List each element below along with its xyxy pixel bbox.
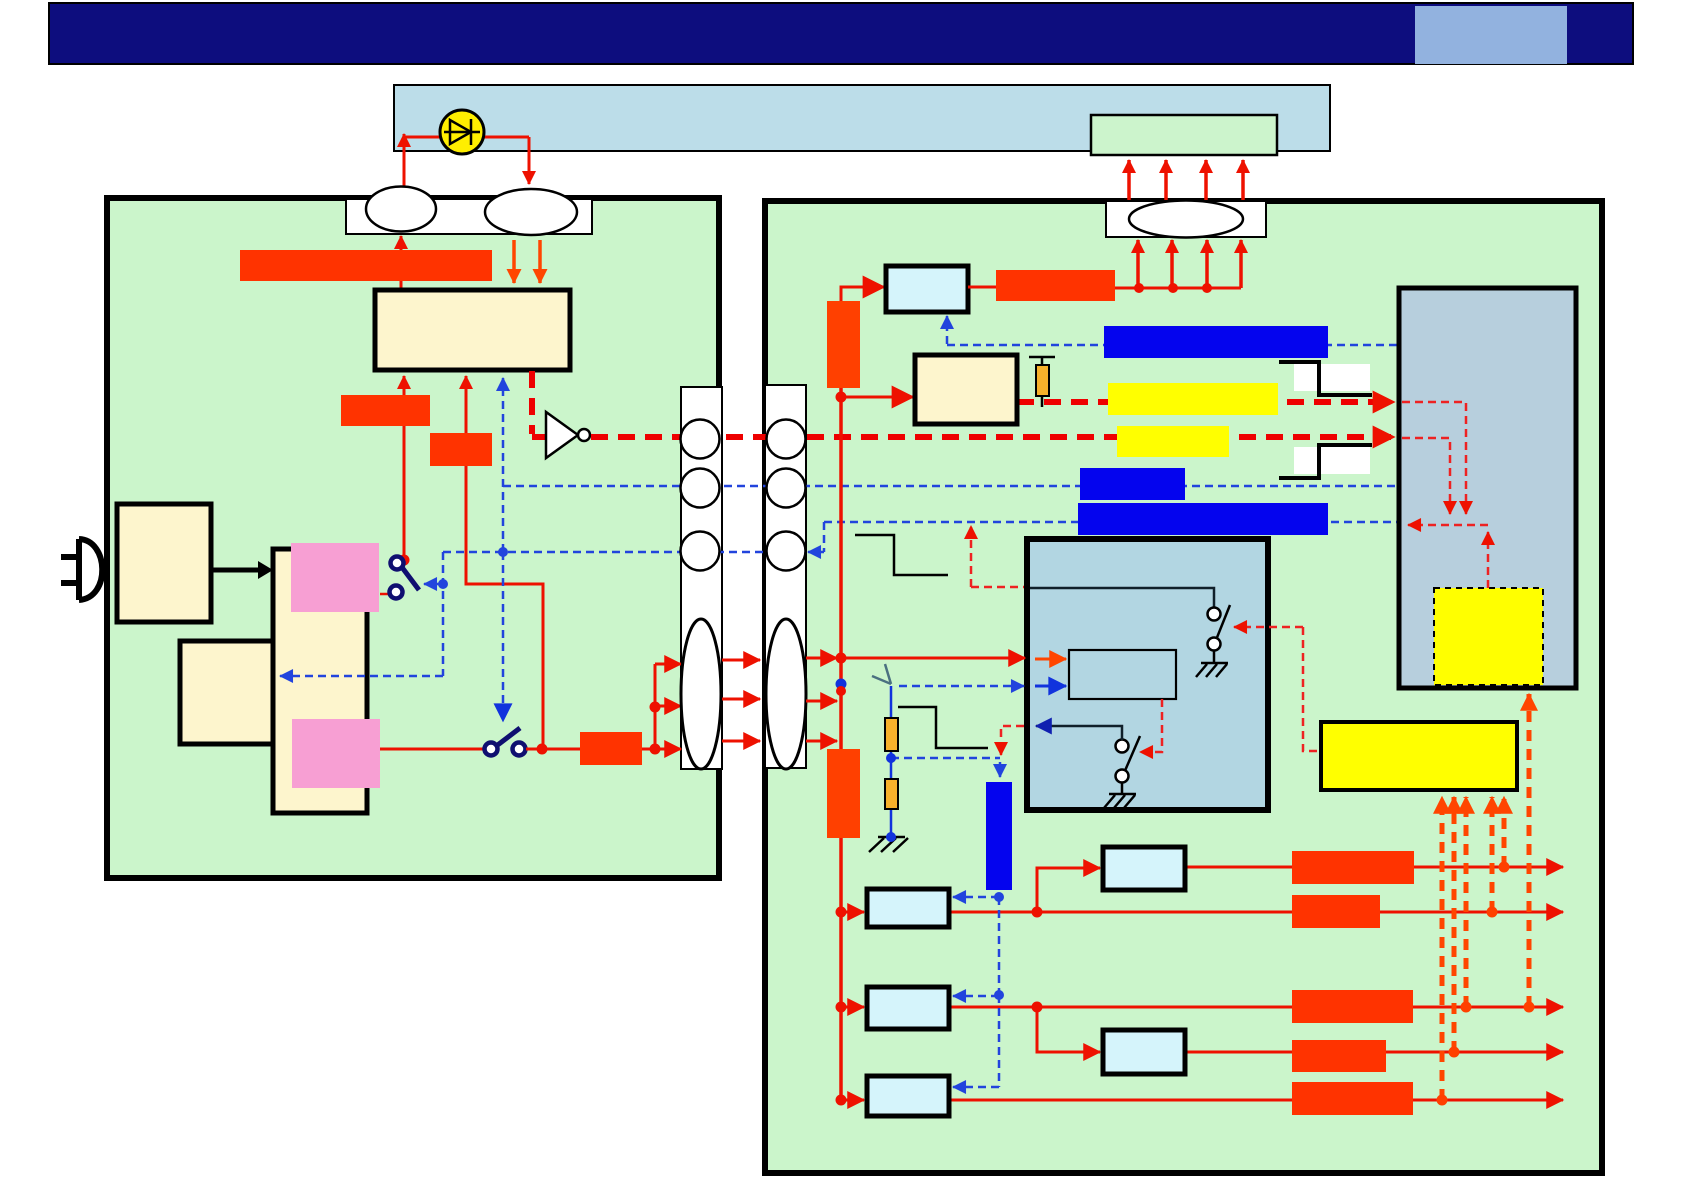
rectifier bar (tall orange top) xyxy=(827,301,860,388)
red box R2 xyxy=(430,433,492,466)
sense chain node 2 xyxy=(994,990,1004,1000)
J1 pin L3 xyxy=(681,532,720,571)
output red box row1b xyxy=(1292,851,1414,884)
wire loop top run xyxy=(404,136,529,139)
node rail aux xyxy=(836,686,846,696)
row wire 1b xyxy=(1185,866,1563,869)
wire loop right drop xyxy=(528,137,531,184)
node lamp wire 1 xyxy=(1134,283,1144,293)
right notch top (lamp connector cutout) xyxy=(1106,201,1266,237)
title bar xyxy=(49,3,1633,64)
node f3 xyxy=(1461,1002,1472,1013)
backlight arrow 3 xyxy=(1204,160,1208,200)
main rail x841 xyxy=(839,388,843,1100)
blue status row y345 xyxy=(947,344,1397,347)
control drop to S2 xyxy=(502,552,505,721)
riser R1 to S1 xyxy=(403,426,406,556)
rail top hook to AC module xyxy=(841,287,884,302)
yellow label bar 2 xyxy=(1117,426,1229,457)
step glyph C labels xyxy=(1294,364,1318,391)
blue row y552 left segment xyxy=(443,551,768,554)
lamp feed arrow 3 xyxy=(1205,240,1209,288)
wire driver to lamp arrows xyxy=(1115,287,1241,290)
battery cell 2 xyxy=(292,719,380,788)
sense chain arrow 1 xyxy=(953,896,999,899)
backlight arrow 1 xyxy=(1127,160,1131,200)
ground G1 xyxy=(869,832,908,852)
switch S4 xyxy=(1116,736,1141,794)
row wire 2 xyxy=(949,1006,1563,1009)
node on control line xyxy=(498,547,508,557)
AC feed arrow xyxy=(211,568,258,573)
fuse F1 xyxy=(1029,357,1055,407)
right notch side (J2 cutout right) xyxy=(765,385,806,768)
feed wire via jog to S2 node xyxy=(466,466,543,747)
J1 socket B (ellipse) xyxy=(485,189,577,235)
node rail row3 xyxy=(836,1095,847,1106)
battery cell 1 xyxy=(291,543,379,612)
ctrl box B (cyan) xyxy=(1103,847,1185,890)
lamp inverter unit xyxy=(915,355,1017,424)
wire battery2 to S2 xyxy=(380,748,485,751)
ctrl box A (cyan) xyxy=(867,889,949,927)
blue arrow into sense module xyxy=(999,762,1002,777)
step glyph D labels xyxy=(1294,447,1318,474)
node lamp wire 3 xyxy=(1202,283,1212,293)
J1-B down arrow 2 xyxy=(538,240,542,283)
riser to J1-A xyxy=(400,236,403,292)
S3 ctrl dash elbow xyxy=(1303,627,1321,751)
power wire into control box xyxy=(840,657,1025,660)
wire battery1 to S1 xyxy=(380,593,390,596)
blue status row y522 xyxy=(824,521,1397,524)
step waveform glyph B xyxy=(898,707,988,748)
backlight arrow 4 xyxy=(1241,160,1245,200)
inner dash path B xyxy=(1402,438,1450,514)
J1 pin L1 xyxy=(681,420,720,459)
output red box row2b xyxy=(1292,1040,1386,1072)
node divider tap xyxy=(886,753,896,763)
sense module (blue bar) xyxy=(986,782,1012,890)
wire loop left riser xyxy=(403,134,406,186)
status arrow down to sense line xyxy=(1000,742,1003,755)
power bus bar xyxy=(240,250,492,281)
voltage divider wire xyxy=(890,686,893,837)
output red box row1 xyxy=(1292,895,1380,928)
lamp driver assembly box (steel) xyxy=(1399,288,1576,688)
rail feed arrow row1 xyxy=(841,911,864,914)
feedback riser f2 xyxy=(1452,797,1457,1052)
AC plug P1 xyxy=(61,539,102,600)
ctrl box E (cyan) xyxy=(867,1076,949,1116)
output red box row3 xyxy=(1292,1082,1413,1115)
ground G3 xyxy=(1196,663,1228,677)
control riser x443 xyxy=(442,552,445,676)
crossing tick marks xyxy=(872,664,891,684)
branch up to ctrl box B xyxy=(1037,868,1100,912)
node rail J2 row1 xyxy=(836,653,847,664)
node f4 xyxy=(1487,907,1498,918)
row wire 1 xyxy=(949,911,1563,914)
node R3 branch xyxy=(650,744,661,755)
red box R3 xyxy=(580,732,642,765)
wire R3 to branch xyxy=(642,748,655,751)
node f6 xyxy=(1524,1002,1535,1013)
pwm block (yellow dashed) xyxy=(1434,588,1543,685)
J1-B down arrow 1 xyxy=(512,240,516,283)
system control box xyxy=(1027,539,1268,810)
logic ctrl drop to S4 xyxy=(1140,699,1162,752)
low rail bar (tall orange bottom) xyxy=(827,749,860,838)
J2 socket right xyxy=(766,619,806,769)
ground G4 xyxy=(1104,794,1136,808)
right unit enclosure xyxy=(765,201,1602,1173)
power arrow into logic core xyxy=(1035,658,1066,661)
branch down to ctrl box D xyxy=(1037,1007,1100,1052)
blue status row y486 xyxy=(503,485,1397,488)
enable dash bus row y437 xyxy=(591,434,1394,440)
left unit enclosure xyxy=(107,198,719,878)
feedback riser f1 xyxy=(1440,797,1445,1100)
J2 socket left xyxy=(681,619,721,769)
feedback riser f4 xyxy=(1490,797,1495,912)
lamp feed arrow 4 xyxy=(1239,240,1243,288)
ctrl box D (cyan) xyxy=(1103,1030,1185,1074)
main regulator U1 xyxy=(375,290,570,370)
J2 feed arrow 3 xyxy=(655,748,681,751)
left notch top (J1 cutout) xyxy=(346,199,592,234)
logic core rect xyxy=(1069,650,1176,699)
control arrow into charger xyxy=(280,675,443,678)
J2 output arrow 3 xyxy=(806,740,837,743)
inverter U2 xyxy=(546,412,578,458)
J1 pin L2 xyxy=(681,469,720,508)
resistor RV2 xyxy=(885,779,898,809)
blue ctrl arrow into AC module xyxy=(946,316,949,344)
S4 status wire out (navy) xyxy=(1036,726,1122,740)
node on S1 stub xyxy=(438,579,448,589)
left notch side (J2 cutout left) xyxy=(681,387,722,769)
sense chain drop 1 xyxy=(998,897,1001,995)
sense arrow into logic core xyxy=(1035,685,1066,688)
switch S1 xyxy=(390,555,420,599)
charger block xyxy=(273,549,367,813)
feedback riser f5 xyxy=(1502,797,1507,867)
U1 feed arrow a xyxy=(403,376,406,396)
U1 feed arrow b xyxy=(465,376,468,433)
J1 socket A (ellipse) xyxy=(366,187,436,232)
node f1 xyxy=(1437,1095,1448,1106)
step waveform glyph A xyxy=(855,535,948,575)
lamp connector ellipse xyxy=(1129,201,1243,238)
switch S2 xyxy=(485,728,548,756)
blue label bar 2 xyxy=(1080,468,1185,500)
sense chain node 1 xyxy=(994,892,1004,902)
status dash outside box xyxy=(1001,726,1024,742)
ctrl box C (cyan) xyxy=(867,987,949,1029)
sub regulator block xyxy=(180,641,273,744)
arrow rail to inverter unit xyxy=(841,396,913,399)
J2 output arrow 2 xyxy=(806,700,837,703)
top band (lamp assembly) xyxy=(394,85,1330,151)
lamp feed arrow 1 xyxy=(1136,240,1140,288)
driver bar xyxy=(996,270,1115,301)
lamp enable dash row y402 xyxy=(1017,399,1394,405)
feedback riser long f6 xyxy=(1527,694,1532,1007)
output red box row2 xyxy=(1292,990,1413,1023)
blue label bar 1 xyxy=(1104,326,1328,358)
node f5 xyxy=(1499,862,1510,873)
sense wire into control box (blue dashed) xyxy=(899,685,1024,688)
rail feed arrow row2 xyxy=(841,1006,864,1009)
AC input filter block xyxy=(117,504,211,622)
ctrl dash riser x971 xyxy=(970,526,973,587)
wire module to driver bar xyxy=(968,286,996,289)
sense chain arrow 3 xyxy=(953,1086,999,1089)
step glyph D xyxy=(1279,445,1372,478)
S1 control stub xyxy=(424,583,443,586)
row wire 3 xyxy=(949,1099,1563,1102)
node f2 xyxy=(1449,1047,1460,1058)
sense chain drop 2 xyxy=(998,995,1001,1087)
timing control box (yellow) xyxy=(1321,722,1517,790)
inner dash path A xyxy=(1402,402,1466,514)
blue row y522 corner drop xyxy=(823,522,826,552)
divider tap dash to sense module xyxy=(891,757,1000,760)
inner dash bus out xyxy=(1408,524,1488,527)
node lamp wire 2 xyxy=(1168,283,1178,293)
J1 pin R3 xyxy=(767,532,806,571)
resistor RV1 xyxy=(885,718,898,751)
blue arrow into J2 pin3 xyxy=(808,551,824,554)
J2 crossing arrow 2 xyxy=(722,698,760,701)
node branch D xyxy=(1032,1002,1043,1013)
J2 feed arrow 1 xyxy=(655,663,681,666)
indicator block in band xyxy=(1091,115,1277,155)
ctrl dash run to control box xyxy=(971,586,1025,589)
control box top wire xyxy=(1030,588,1214,608)
J2 output arrow 1 xyxy=(806,657,837,660)
J2 crossing arrow 3 xyxy=(722,740,760,743)
red box R1 xyxy=(341,395,430,426)
switch S3 xyxy=(1208,605,1231,663)
branch riser x655 xyxy=(654,664,657,749)
J2 crossing arrow 1 xyxy=(722,659,760,662)
node branch B xyxy=(1032,907,1043,918)
U1 control arrow (blue) xyxy=(502,378,505,552)
enable dash drop from U1 xyxy=(532,371,546,437)
node mid branch xyxy=(650,702,661,713)
feedback riser f3 xyxy=(1464,797,1469,1007)
node rail sense (blue) xyxy=(836,679,847,690)
diode CR1 xyxy=(440,110,484,154)
rail feed arrow row3 xyxy=(841,1099,864,1102)
step glyph C xyxy=(1279,362,1372,395)
node rail row1 xyxy=(836,907,847,918)
J1 pin R2 xyxy=(767,469,806,508)
yellow label bar 1 xyxy=(1108,383,1278,415)
S3 ctrl dash from timing box xyxy=(1234,626,1303,629)
sense chain arrow 2 xyxy=(953,995,999,998)
node on rail y397 xyxy=(836,392,847,403)
pwm uplink arrow xyxy=(1487,532,1490,588)
row wire 2b xyxy=(1185,1051,1563,1054)
AC detect module (cyan) xyxy=(886,266,968,312)
lamp feed arrow 2 xyxy=(1170,240,1174,288)
J2 feed arrow 2 xyxy=(655,705,681,708)
J1 pin R1 xyxy=(767,420,806,459)
node rail row2 xyxy=(836,1002,847,1013)
wire S2 to R3 xyxy=(526,748,580,751)
blue label bar 3 xyxy=(1078,503,1328,535)
title bar accent block xyxy=(1415,6,1567,64)
backlight arrow 2 xyxy=(1164,160,1168,200)
